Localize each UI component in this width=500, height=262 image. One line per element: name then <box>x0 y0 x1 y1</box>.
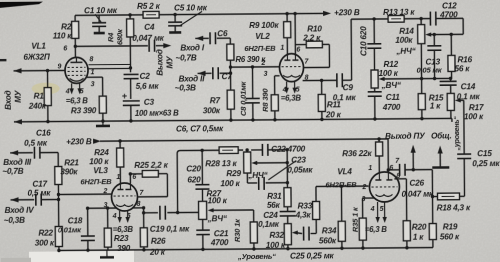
svg-text:Вход III: Вход III <box>3 158 32 167</box>
svg-text:R34: R34 <box>322 226 337 235</box>
svg-text:C5 10 мк: C5 10 мк <box>174 3 208 12</box>
svg-text:6Н2П-ЕВ: 6Н2П-ЕВ <box>80 177 112 186</box>
svg-text:100 к: 100 к <box>89 157 109 166</box>
svg-text:R26: R26 <box>151 237 166 246</box>
svg-text:3: 3 <box>264 71 268 78</box>
svg-text:VL2: VL2 <box>255 32 270 41</box>
svg-text:C19 0,1 мк: C19 0,1 мк <box>150 224 190 233</box>
svg-text:R20: R20 <box>412 223 427 232</box>
svg-text:=6,3В: =6,3В <box>281 94 302 103</box>
svg-text:C16: C16 <box>36 129 51 138</box>
svg-text:R28 13 к: R28 13 к <box>205 159 237 168</box>
svg-text:R17: R17 <box>469 103 484 112</box>
svg-text:4: 4 <box>112 213 117 220</box>
svg-text:5,6 мк: 5,6 мк <box>136 82 160 91</box>
svg-text:Выход ПУ: Выход ПУ <box>385 132 426 141</box>
svg-text:R14: R14 <box>399 27 414 36</box>
svg-text:100к: 100к <box>395 36 413 45</box>
svg-text:0,1 мк: 0,1 мк <box>333 93 357 102</box>
svg-text:C18: C18 <box>68 216 83 225</box>
svg-text:0,25 мк: 0,25 мк <box>472 159 500 168</box>
svg-text:R32: R32 <box>269 231 284 240</box>
svg-text:C14: C14 <box>461 82 476 91</box>
svg-text:4700: 4700 <box>382 103 401 112</box>
svg-text:Вход IV: Вход IV <box>5 206 36 215</box>
svg-text:390к: 390к <box>60 167 78 176</box>
svg-text:R1: R1 <box>34 92 45 101</box>
svg-text:C1 10 мк: C1 10 мк <box>84 6 118 15</box>
svg-text:680к: 680к <box>115 28 124 45</box>
svg-text:56 к: 56 к <box>454 64 470 73</box>
svg-text:C2: C2 <box>140 72 151 81</box>
svg-text:100 к: 100 к <box>379 69 399 78</box>
svg-text:3: 3 <box>362 196 366 203</box>
svg-text:100 к: 100 к <box>220 179 240 188</box>
svg-text:1: 1 <box>368 165 372 172</box>
svg-text:C11: C11 <box>386 93 401 102</box>
svg-text:МУ: МУ <box>165 55 174 69</box>
svg-text:100 мк×63 В: 100 мк×63 В <box>135 109 179 118</box>
svg-text:2: 2 <box>361 184 366 191</box>
svg-text:VL1: VL1 <box>31 42 46 51</box>
svg-text:390: 390 <box>117 244 131 253</box>
svg-text:„Уровень“: „Уровень“ <box>237 252 276 261</box>
svg-text:2,2 к: 2,2 к <box>302 33 321 42</box>
svg-text:„ВЧ“: „ВЧ“ <box>207 214 228 223</box>
svg-text:C20: C20 <box>186 164 201 173</box>
svg-text:~0,7В: ~0,7В <box>2 167 23 176</box>
svg-text:C23: C23 <box>291 156 306 165</box>
svg-text:4: 4 <box>370 206 375 213</box>
svg-text:R2: R2 <box>61 22 72 31</box>
svg-text:VL3: VL3 <box>93 166 108 175</box>
svg-text:R33: R33 <box>298 202 313 211</box>
svg-text:C7: C7 <box>222 72 233 81</box>
svg-text:620: 620 <box>187 175 201 184</box>
svg-text:R31: R31 <box>267 192 282 201</box>
svg-text:R25 2,2 к: R25 2,2 к <box>134 161 168 170</box>
svg-text:R19: R19 <box>443 222 458 231</box>
svg-text:Вход I: Вход I <box>180 43 205 52</box>
svg-text:МУ: МУ <box>14 89 23 103</box>
svg-text:6: 6 <box>296 47 300 54</box>
svg-text:56к: 56к <box>267 201 281 210</box>
svg-text:6Ж32П: 6Ж32П <box>23 53 51 62</box>
svg-text:C3: C3 <box>144 98 155 107</box>
svg-text:„ВЧ“: „ВЧ“ <box>381 81 402 90</box>
svg-text:Вход II: Вход II <box>179 74 206 83</box>
svg-text:1 к: 1 к <box>413 233 424 242</box>
svg-text:~0,3В: ~0,3В <box>4 216 25 225</box>
svg-text:R23: R23 <box>114 234 129 243</box>
svg-text:4,3к: 4,3к <box>295 211 312 220</box>
svg-text:R35 1 к: R35 1 к <box>351 206 360 232</box>
svg-text:1 к: 1 к <box>430 101 441 110</box>
svg-text:8: 8 <box>89 56 93 63</box>
svg-text:~0,3В: ~0,3В <box>175 83 196 92</box>
svg-text:560к: 560к <box>319 236 337 245</box>
svg-text:R30 1к: R30 1к <box>233 218 242 242</box>
svg-text:C26: C26 <box>409 179 424 188</box>
svg-text:300 к: 300 к <box>35 239 55 248</box>
svg-text:C9: C9 <box>343 83 354 92</box>
svg-text:0,05 мк: 0,05 мк <box>416 65 442 74</box>
svg-text:1: 1 <box>116 174 120 181</box>
svg-text:R10: R10 <box>307 24 322 33</box>
svg-text:4700: 4700 <box>210 238 229 247</box>
svg-text:=6,3 В: =6,3 В <box>365 225 388 234</box>
svg-text:0,5 мк: 0,5 мк <box>27 189 51 198</box>
svg-text:100 к: 100 к <box>208 196 228 205</box>
svg-text:3: 3 <box>91 81 95 88</box>
svg-text:20 к: 20 к <box>325 110 342 119</box>
svg-text:+230 В: +230 В <box>334 8 360 17</box>
svg-text:R4: R4 <box>106 32 115 42</box>
svg-text:C17: C17 <box>32 180 47 189</box>
svg-text:6Н2П-ЕВ: 6Н2П-ЕВ <box>244 44 276 53</box>
svg-text:C6: C6 <box>217 29 228 38</box>
svg-text:Вход: Вход <box>4 90 13 110</box>
svg-text:R18 4,3 к: R18 4,3 к <box>437 203 471 212</box>
svg-text:R16: R16 <box>457 55 472 64</box>
svg-text:C22 4700: C22 4700 <box>271 145 306 154</box>
svg-text:9: 9 <box>57 63 61 70</box>
svg-text:R29: R29 <box>226 169 241 178</box>
svg-text:C15: C15 <box>477 149 492 158</box>
svg-text:R5 2 к: R5 2 к <box>137 2 161 11</box>
svg-text:C10 620: C10 620 <box>359 26 368 56</box>
svg-text:100 к: 100 к <box>266 241 286 250</box>
svg-text:4: 4 <box>65 88 70 95</box>
svg-text:4700: 4700 <box>439 10 458 19</box>
svg-text:5: 5 <box>380 206 384 213</box>
svg-text:300к: 300к <box>203 106 221 115</box>
svg-text:R24: R24 <box>94 148 109 157</box>
svg-text:R22: R22 <box>38 229 53 238</box>
svg-text:=6,3В: =6,3В <box>113 225 134 234</box>
svg-text:C8 0,01мк: C8 0,01мк <box>239 80 248 116</box>
svg-text:R3 390: R3 390 <box>71 106 97 115</box>
svg-text:R36 22к: R36 22к <box>342 149 372 158</box>
svg-text:1: 1 <box>91 69 95 76</box>
svg-text:0,5 мк: 0,5 мк <box>24 139 48 148</box>
svg-text:6Н2П-ЕВ: 6Н2П-ЕВ <box>325 180 357 189</box>
svg-text:R9 100к: R9 100к <box>249 21 279 30</box>
svg-text:~0,7В: ~0,7В <box>175 53 196 62</box>
svg-text:C6, C7 0,5мк: C6, C7 0,5мк <box>176 124 224 133</box>
svg-text:„уровень“: „уровень“ <box>454 116 461 152</box>
svg-text:C25 0,25 мк: C25 0,25 мк <box>290 251 335 260</box>
svg-text:560 к: 560 к <box>440 232 460 241</box>
svg-text:1: 1 <box>280 45 284 52</box>
svg-text:+230 В: +230 В <box>66 137 92 146</box>
svg-text:C12: C12 <box>442 1 457 10</box>
svg-text:C21: C21 <box>214 229 229 238</box>
svg-text:8: 8 <box>137 201 141 208</box>
svg-text:Выход: Выход <box>155 49 164 76</box>
svg-text:0,1мк: 0,1мк <box>258 220 280 229</box>
svg-text:C4: C4 <box>144 23 155 32</box>
svg-text:R21: R21 <box>64 158 79 167</box>
svg-text:2: 2 <box>260 60 265 67</box>
svg-text:6: 6 <box>389 165 393 172</box>
svg-text:=6,3 В: =6,3 В <box>66 96 89 105</box>
svg-text:0,01мк: 0,01мк <box>58 225 82 234</box>
svg-text:Общ.: Общ. <box>431 130 452 140</box>
svg-text:6: 6 <box>132 174 136 181</box>
svg-text:R13 13 к: R13 13 к <box>383 8 415 17</box>
svg-text:110 к: 110 к <box>53 31 73 40</box>
svg-text:6: 6 <box>63 45 67 52</box>
svg-text:0,05мк: 0,05мк <box>287 166 313 175</box>
svg-text:0,047 мк: 0,047 мк <box>132 34 164 43</box>
svg-text:„НЧ“: „НЧ“ <box>395 47 416 56</box>
svg-text:100 к: 100 к <box>464 112 484 121</box>
svg-text:R12: R12 <box>383 60 398 69</box>
svg-text:R8 390: R8 390 <box>261 88 270 112</box>
svg-text:R7: R7 <box>210 96 221 105</box>
svg-text:VL4: VL4 <box>337 167 352 176</box>
svg-text:C24: C24 <box>263 211 278 220</box>
svg-text:240к: 240к <box>28 102 47 111</box>
svg-text:2: 2 <box>102 188 107 195</box>
